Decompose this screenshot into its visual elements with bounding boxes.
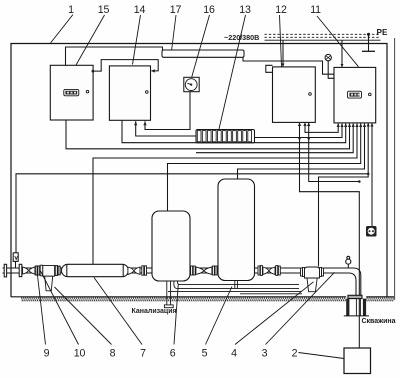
wire bus B8: tank 5 to box11 pin8 bbox=[238, 123, 367, 179]
box 14 (cabinet) bbox=[109, 66, 150, 120]
leader 12 bbox=[280, 15, 282, 67]
wire bus B4: box15 to box11 pin4 bbox=[66, 120, 351, 149]
svg-text:Канализация: Канализация bbox=[132, 308, 177, 315]
leader 15 bbox=[76, 15, 105, 65]
PE terminal circle bbox=[325, 54, 336, 79]
leader 1 bbox=[51, 15, 74, 44]
box 15 (control cabinet with display) bbox=[50, 65, 93, 120]
pressure gauge 16 bbox=[184, 77, 199, 91]
wire link: box12 pin2 to box11 pin1 bbox=[303, 122, 339, 132]
leader 6 bbox=[174, 284, 178, 345]
leader 17 bbox=[172, 15, 176, 50]
leader 14 bbox=[133, 15, 141, 65]
page margin artifact bbox=[394, 38, 396, 300]
wire: box12 pin1 down to well cable bbox=[298, 122, 359, 348]
svg-text:12: 12 bbox=[275, 4, 287, 16]
tank 5 drain pipe bbox=[235, 281, 238, 289]
wire: channel 17 to box 11 bbox=[243, 57, 334, 74]
svg-text:15: 15 bbox=[98, 4, 110, 16]
callout leaders bbox=[37, 15, 359, 359]
wire bus B7: tank 6 to box11 pin7 bbox=[168, 123, 363, 211]
svg-text:17: 17 bbox=[170, 4, 182, 16]
wire bus B3: box14 left to box11 pin3 bbox=[122, 120, 347, 142]
wire: bus to box 12 bbox=[282, 40, 285, 67]
svg-text:16: 16 bbox=[203, 4, 215, 16]
wire: bus to box 11 bbox=[341, 40, 344, 67]
inlet pressure sensor (pos.9 area) bbox=[13, 253, 18, 268]
svg-text:8: 8 bbox=[110, 348, 116, 360]
well casing (Скважина) bbox=[344, 295, 369, 316]
svg-text:10: 10 bbox=[74, 348, 86, 360]
wire: top feed to box 15 and channel bbox=[66, 47, 163, 65]
wire bus B5: to box11 pin5 bbox=[196, 123, 355, 152]
svg-text:9: 9 bbox=[44, 348, 50, 360]
inlet flange at wall bbox=[19, 264, 22, 276]
cable channel 17 bbox=[162, 50, 244, 57]
valve before tank 6 bbox=[128, 266, 147, 275]
well pump 2 bbox=[344, 348, 371, 374]
tank 6 bottom collector pipe bbox=[174, 281, 299, 289]
wire bus B9: inlet sensor to box11 pin9, branch to pump 4 bbox=[16, 123, 370, 267]
svg-text:13: 13 bbox=[239, 4, 251, 16]
svg-text:14: 14 bbox=[134, 4, 146, 16]
tank 6 (hydroaccumulator) bbox=[152, 211, 190, 281]
leader 5 bbox=[206, 287, 233, 345]
wire: box11 pin10 to outlet bbox=[370, 123, 373, 226]
svg-text:~220/380В: ~220/380В bbox=[224, 33, 259, 42]
filter 8 with drain bowl bbox=[40, 265, 54, 291]
inlet flange outside wall bbox=[4, 264, 6, 277]
svg-text:11: 11 bbox=[310, 4, 321, 16]
valve after tank 5 bbox=[258, 266, 280, 276]
union after filter 8 bbox=[55, 266, 60, 276]
leader 3 bbox=[266, 272, 335, 344]
svg-text:3: 3 bbox=[262, 348, 268, 360]
wire: box12 pin3 down to well cable 2 bbox=[307, 122, 361, 183]
svg-text:1: 1 bbox=[68, 4, 74, 16]
leader 4 bbox=[235, 282, 314, 345]
valve 9 (bowtie) bbox=[23, 267, 35, 274]
svg-text:4: 4 bbox=[231, 348, 237, 360]
leader 13 bbox=[219, 15, 246, 129]
leader 9 bbox=[37, 271, 46, 345]
PE ground tap bbox=[362, 33, 375, 52]
leader 7 bbox=[94, 278, 142, 345]
tank 6 drain pipe to sewer bbox=[164, 281, 173, 308]
wire: strip 13 right to box11 pin2 bbox=[255, 123, 344, 137]
pump station 4 bbox=[301, 267, 324, 292]
svg-text:2: 2 bbox=[292, 348, 298, 360]
union 10 bbox=[35, 266, 39, 275]
svg-text:PE: PE bbox=[377, 28, 388, 37]
wire B2: box14 to strip 13 bbox=[134, 121, 196, 136]
terminal strip 13 bbox=[196, 130, 255, 143]
ground line with hatch bbox=[11, 297, 394, 302]
svg-text:5: 5 bbox=[202, 348, 208, 360]
wall socket bbox=[366, 226, 377, 237]
box 11 (pump controller with display) bbox=[334, 67, 376, 123]
svg-text:6: 6 bbox=[170, 348, 176, 360]
leader 8 bbox=[55, 287, 112, 345]
callout numbers bbox=[44, 4, 321, 360]
wire: box 15 to box 14 bbox=[92, 60, 159, 73]
box 12 (cabinet) bbox=[266, 65, 316, 122]
filter 7 (long capsule) bbox=[62, 264, 129, 276]
pressure gauge on pipe 3 bbox=[346, 256, 351, 268]
svg-text:7: 7 bbox=[140, 348, 146, 360]
svg-text:Скважина: Скважина bbox=[362, 318, 396, 325]
wire B1: box14 to gauge 16 bbox=[143, 92, 190, 130]
power bus ~220/380V dashed lines bbox=[265, 34, 381, 37]
valve between tanks bbox=[191, 266, 217, 275]
leader 11 bbox=[317, 16, 359, 67]
leader 16 bbox=[192, 15, 210, 77]
house outline (pos.1 building) bbox=[11, 44, 387, 298]
tank 5 (hydroaccumulator) bbox=[218, 179, 255, 281]
lower collector lines bbox=[168, 291, 302, 293]
leader 10 bbox=[41, 271, 79, 345]
main water pipe bbox=[3, 268, 361, 296]
wire bus B6: filter 7 to box11 pin6 bbox=[93, 123, 359, 264]
leader 2 bbox=[299, 353, 345, 359]
